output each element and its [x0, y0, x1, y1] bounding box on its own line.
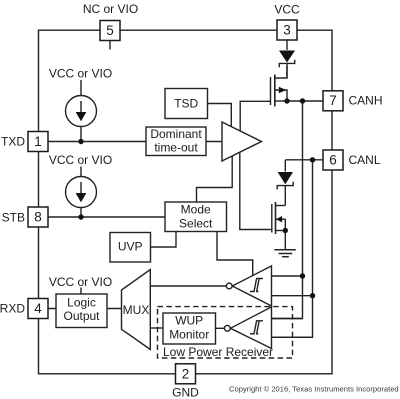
svg-text:Copyright © 2016, Texas Instru: Copyright © 2016, Texas Instruments Inco… — [229, 385, 399, 394]
svg-text:Select: Select — [179, 217, 213, 231]
svg-text:TSD: TSD — [174, 97, 198, 111]
svg-text:VCC or VIO: VCC or VIO — [49, 67, 112, 81]
svg-text:WUP: WUP — [175, 314, 203, 328]
svg-text:TXD: TXD — [1, 135, 25, 149]
svg-text:8: 8 — [34, 210, 42, 225]
svg-text:CANL: CANL — [349, 153, 381, 167]
svg-text:Monitor: Monitor — [169, 328, 209, 342]
svg-text:UVP: UVP — [118, 240, 143, 254]
svg-text:MUX: MUX — [123, 303, 150, 317]
svg-text:Output: Output — [63, 309, 100, 323]
svg-text:4: 4 — [34, 301, 42, 316]
svg-text:Logic: Logic — [67, 296, 96, 310]
svg-text:1: 1 — [34, 134, 42, 149]
svg-text:Mode: Mode — [181, 203, 211, 217]
svg-text:NC or VIO: NC or VIO — [83, 2, 138, 16]
svg-text:2: 2 — [182, 367, 190, 382]
svg-text:time-out: time-out — [154, 141, 198, 155]
svg-text:STB: STB — [2, 211, 25, 225]
svg-text:CANH: CANH — [349, 94, 383, 108]
svg-text:VCC: VCC — [274, 3, 300, 17]
svg-text:GND: GND — [172, 386, 199, 399]
svg-text:7: 7 — [329, 93, 337, 108]
svg-text:RXD: RXD — [0, 302, 25, 316]
svg-text:VCC or VIO: VCC or VIO — [49, 275, 112, 289]
svg-text:Low Power Receiver: Low Power Receiver — [163, 345, 273, 359]
svg-text:Dominant: Dominant — [150, 127, 202, 141]
svg-text:5: 5 — [106, 23, 114, 38]
svg-text:VCC or VIO: VCC or VIO — [49, 153, 112, 167]
svg-text:6: 6 — [329, 153, 337, 168]
svg-text:3: 3 — [283, 23, 291, 38]
